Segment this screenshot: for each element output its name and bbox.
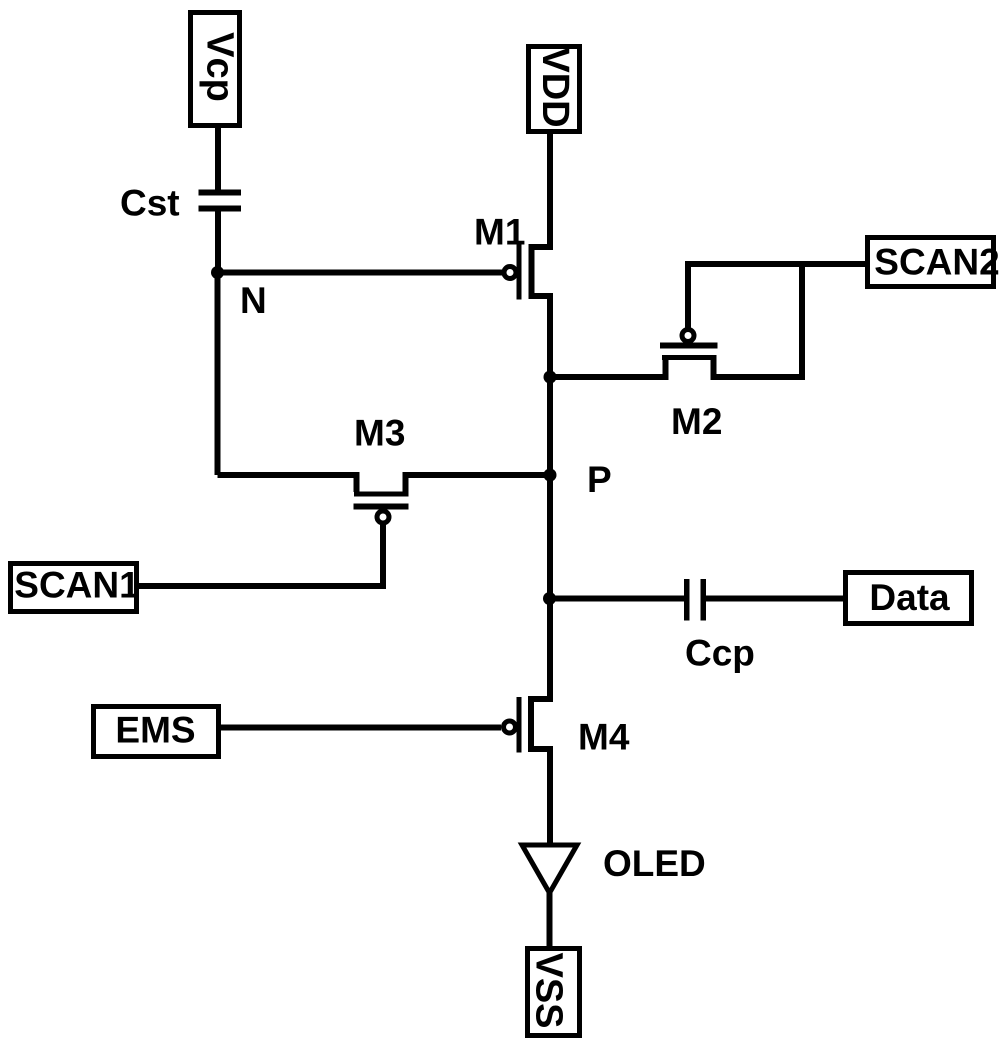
svg-text:M1: M1 (474, 212, 525, 253)
svg-text:Vcp: Vcp (199, 32, 241, 102)
svg-text:OLED: OLED (603, 843, 706, 884)
svg-text:SCAN2: SCAN2 (874, 242, 999, 283)
svg-text:Ccp: Ccp (685, 633, 755, 674)
svg-text:N: N (240, 280, 267, 321)
svg-text:M2: M2 (671, 401, 722, 442)
svg-text:M4: M4 (578, 717, 630, 758)
svg-text:SCAN1: SCAN1 (14, 565, 139, 606)
svg-text:VDD: VDD (534, 47, 576, 127)
svg-text:VSS: VSS (528, 952, 570, 1028)
svg-text:P: P (587, 459, 612, 500)
svg-text:EMS: EMS (115, 710, 195, 751)
svg-text:M3: M3 (354, 413, 405, 454)
svg-text:Data: Data (869, 577, 950, 618)
svg-text:Cst: Cst (120, 183, 180, 224)
